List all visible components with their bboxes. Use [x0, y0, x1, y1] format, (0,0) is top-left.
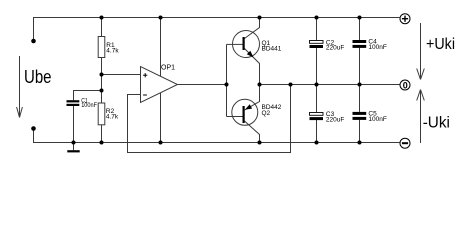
wire op-amp - input feedback	[128, 85, 291, 153]
node C3 bottom	[315, 141, 319, 145]
node C4 top	[358, 16, 362, 20]
svg-text:4.7k: 4.7k	[106, 113, 119, 120]
wire op-amp output	[178, 84, 227, 86]
resistor R2	[98, 103, 119, 125]
node emitters	[258, 83, 262, 87]
resistor R1	[98, 37, 119, 58]
wire Q1 collector	[245, 18, 260, 39]
arrow -Uki	[417, 90, 425, 144]
node C5 bottom	[358, 141, 362, 145]
capacitor C1	[67, 99, 98, 109]
node + input	[100, 73, 104, 77]
arrow +Uki	[417, 23, 425, 80]
wire C4 leads	[359, 18, 361, 41]
wire C1 branch	[74, 91, 102, 101]
node feedback	[289, 83, 293, 87]
wire Q2 base	[227, 116, 243, 118]
svg-text:Ube: Ube	[24, 67, 52, 87]
node base drive	[225, 83, 229, 87]
svg-text:BD441: BD441	[262, 46, 282, 53]
wire Q2 collector	[245, 121, 260, 143]
wire op-amp V- supply pin	[160, 93, 162, 143]
capacitor C3	[310, 111, 345, 124]
wire op-amp + input	[102, 74, 141, 76]
ground	[67, 150, 79, 152]
node R1 top	[100, 16, 104, 20]
wire Q1 base	[227, 43, 243, 45]
wire C5 leads	[359, 85, 361, 112]
svg-text:Q2: Q2	[262, 110, 271, 117]
capacitor C5	[353, 111, 387, 124]
terminal 0	[400, 80, 410, 90]
node Ube top terminal	[31, 39, 36, 44]
svg-text:100nF: 100nF	[368, 116, 386, 123]
svg-text:0: 0	[403, 80, 408, 90]
node C1 branch	[100, 89, 104, 93]
node op-amp V+	[159, 16, 163, 20]
svg-text:220uF: 220uF	[326, 45, 344, 52]
transistor Q1	[233, 31, 282, 58]
wire top rail (+)	[34, 18, 400, 42]
node C5 top	[358, 83, 362, 87]
wire op-amp V+ supply pin	[160, 18, 162, 77]
node C1 ground	[72, 141, 76, 145]
capacitor C2	[310, 39, 345, 51]
svg-text:4.7k: 4.7k	[106, 48, 119, 55]
svg-text:220uF: 220uF	[326, 117, 344, 124]
node op-amp V-	[159, 141, 163, 145]
svg-text:+Uki: +Uki	[426, 36, 455, 53]
wire C3 leads	[316, 85, 318, 113]
op-amp OP1	[141, 65, 178, 103]
wire C2 leads	[316, 18, 318, 41]
wire bottom rail (-)	[34, 129, 400, 143]
wire base drive vertical	[226, 44, 228, 116]
node Q1 collector	[258, 16, 262, 20]
wire Q2 emitter	[245, 85, 260, 111]
svg-text:100nF: 100nF	[368, 44, 386, 51]
wire Q1 emitter	[245, 49, 260, 85]
node Ube bottom terminal	[31, 126, 36, 131]
ground stub	[73, 143, 75, 151]
svg-text:-Uki: -Uki	[423, 115, 450, 132]
wire left vertical through R1/R2	[101, 18, 103, 143]
wire C1 bottom lead	[73, 106, 75, 143]
svg-text:100nF: 100nF	[81, 103, 97, 109]
node Q2 collector	[258, 141, 262, 145]
node C2 top	[315, 16, 319, 20]
transistor Q2	[232, 99, 282, 125]
terminal +Uki	[400, 14, 410, 24]
Ube source arrow	[17, 56, 23, 118]
terminal -Uki	[400, 138, 410, 148]
node C3 top	[315, 83, 319, 87]
capacitor C4	[353, 39, 387, 52]
wire mid rail (0) from emitter node to 0 terminal	[260, 84, 400, 86]
node R2 bottom	[100, 141, 104, 145]
svg-text:OP1: OP1	[161, 65, 175, 72]
